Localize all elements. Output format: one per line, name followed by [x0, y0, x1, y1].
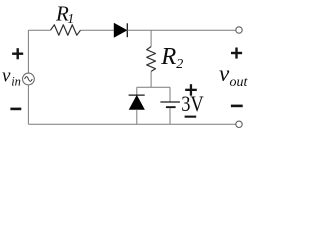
svg-text:v: v: [2, 65, 11, 86]
terminal: vout top (open circle): [236, 27, 242, 33]
battery B1 3V: [160, 102, 180, 108]
diode D2 (pointing up): [129, 95, 145, 109]
wire: top rail between R1 and D1: [81, 29, 115, 31]
wire: battery top stem: [169, 87, 171, 102]
polarity + (vout): [231, 48, 242, 59]
label R1: [55, 2, 74, 28]
svg-text:R: R: [160, 43, 176, 70]
label R2: [160, 43, 183, 72]
wire: left rail lower (vin bottom): [27, 85, 29, 124]
label vout: [219, 61, 249, 90]
svg-text:v: v: [219, 61, 230, 86]
wire: battery bottom stem: [169, 108, 171, 124]
terminal: vout bottom (open circle): [236, 121, 242, 127]
polarity - (vin): [10, 108, 21, 111]
svg-text:in: in: [11, 75, 21, 89]
svg-text:2: 2: [176, 57, 183, 72]
wire: D2 bottom stem: [136, 109, 138, 124]
svg-text:1: 1: [67, 12, 74, 27]
battery +: [185, 84, 197, 96]
wire: D2 top stem: [136, 87, 138, 95]
diode D1: [114, 23, 127, 37]
resistor R2: [147, 47, 156, 72]
wire: top rail from D1 to output terminal: [127, 29, 236, 31]
AC source VS (vin): [23, 73, 35, 85]
resistor R1: [51, 25, 81, 35]
wire: horizontal bar joining D2 and battery: [137, 86, 170, 88]
polarity + (vin): [12, 48, 23, 59]
svg-text:3V: 3V: [181, 91, 204, 116]
wire: left rail upper (vin top): [27, 30, 29, 73]
wire: R2 stem from top rail: [150, 30, 152, 46]
wire: top rail left segment: [28, 29, 50, 31]
battery -: [185, 116, 197, 118]
svg-text:out: out: [230, 75, 249, 90]
polarity - (vout): [231, 105, 243, 108]
label vin: [2, 65, 21, 88]
wire: R2 bottom stem: [150, 71, 152, 87]
wire: bottom rail: [28, 123, 235, 125]
